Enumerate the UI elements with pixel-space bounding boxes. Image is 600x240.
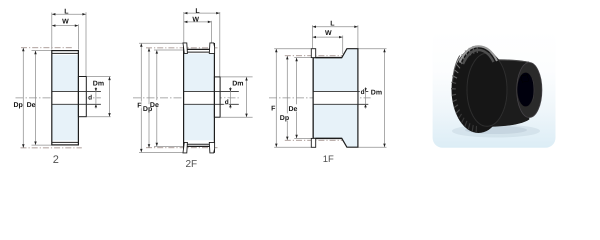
svg-text:De: De xyxy=(27,102,36,109)
product photo: flange front face xyxy=(467,53,507,126)
pulley type 2: dimension Dm line with arrows xyxy=(109,77,111,117)
pulley type 2F: body side edges xyxy=(183,43,185,153)
svg-text:L: L xyxy=(195,8,200,15)
pulley type 2: centerline (dash-dot) xyxy=(16,97,101,99)
svg-text:W: W xyxy=(62,19,69,26)
pulley type 1F: bore line top xyxy=(313,90,368,92)
pulley type 2F: teeth band bottom (white) xyxy=(187,142,209,147)
pulley type 1F: F extension lines xyxy=(274,48,311,50)
pulley type 2F: flange tab bottom-left xyxy=(183,142,187,153)
pulley type 2F: dimension d line with arrows xyxy=(229,87,231,109)
svg-text:1F: 1F xyxy=(323,154,334,165)
pulley type 2F: label d (with halo) xyxy=(224,98,229,104)
pulley type 2F: F extension lines xyxy=(139,42,183,44)
pulley type 2: tooth root line top xyxy=(52,52,79,54)
svg-text:De: De xyxy=(150,102,159,109)
pulley type 1F: dimension F line with arrows xyxy=(275,49,277,148)
svg-text:Dm: Dm xyxy=(93,81,104,88)
pulley type 2F: dimension L extension lines xyxy=(183,12,185,43)
pulley type 2F: De extension lines xyxy=(154,49,183,51)
pulley type 2: dimension W extension line xyxy=(77,24,79,49)
svg-text:2F: 2F xyxy=(185,159,197,170)
svg-text:2: 2 xyxy=(53,154,59,166)
svg-text:Dm: Dm xyxy=(232,80,243,87)
svg-text:L: L xyxy=(330,21,335,28)
pulley type 1F: label d (with halo) xyxy=(360,88,365,94)
pulley type 2F: label Dm (with halo) xyxy=(232,79,243,86)
pulley type 1F: pitch line bottom (dash-dot) xyxy=(285,139,343,141)
svg-text:Dm: Dm xyxy=(371,90,382,97)
pulley type 2F: tooth tip line bottom xyxy=(187,145,209,147)
pulley type 2: bore strip (white) xyxy=(52,91,85,104)
svg-text:L: L xyxy=(64,9,69,16)
pulley type 2F: pitch line bottom (dash-dot) xyxy=(146,147,218,149)
pulley type 2F: teeth band top (white) xyxy=(187,49,209,54)
pulley type 2F: tooth root line top xyxy=(187,51,209,53)
pulley type 2: tooth root line bottom xyxy=(52,141,79,143)
product photo: flange upper-left rim secondary highlight xyxy=(453,56,460,83)
pulley type 2: bore line top xyxy=(52,90,101,92)
pulley type 2F: dimension Dm line with arrows xyxy=(246,77,248,117)
pulley type 2: bore line bottom xyxy=(52,103,101,105)
pulley type 2: label Dm (with halo) xyxy=(92,79,103,86)
pulley type 2: label d (with halo) xyxy=(87,94,92,100)
pulley type 1F: dimension d line with arrows xyxy=(365,87,367,109)
pulley type 2: teeth band bottom (white) xyxy=(52,141,77,145)
pulley type 1F: dimension Dp line with arrows xyxy=(286,56,288,140)
pulley type 1F: dimension W extension line xyxy=(342,36,344,55)
pulley type 1F: bore strip (white) xyxy=(314,91,358,104)
pulley type 2F: label De xyxy=(150,100,160,107)
pulley type 2F: label Dp xyxy=(143,104,153,111)
product photo: bore hole xyxy=(517,73,534,107)
pulley type 1F: De extension lines xyxy=(294,57,311,59)
pulley type 1F: dimension L extension lines xyxy=(311,25,313,48)
pulley type 2F: bore line bottom xyxy=(184,103,239,105)
pulley type 2F: dimension Dp line with arrows xyxy=(148,48,150,148)
pulley type 2F: tooth tip line top xyxy=(187,48,209,50)
product photo: keyway notch xyxy=(521,75,528,82)
pulley type 2F: pitch line top (dash-dot) xyxy=(146,47,218,49)
pulley type 1F: dimension L line with arrows xyxy=(312,26,358,28)
pulley type 2: dimension d line with arrows xyxy=(95,87,97,109)
pulley type 1F: flange tab bottom xyxy=(311,138,315,147)
pulley type 2: dimension De line with arrows xyxy=(35,51,37,146)
pulley type 1F: body with hub (light blue, outlined) xyxy=(313,49,358,148)
svg-text:Dp: Dp xyxy=(280,115,289,122)
pulley type 2: body outline xyxy=(52,51,79,145)
product photo: flange top rim highlight xyxy=(460,46,498,62)
pulley type 1F: dimension W line with arrows xyxy=(312,36,342,38)
pulley type 2F: tooth root line bottom xyxy=(187,143,209,145)
pulley type 1F: tooth tip line bottom xyxy=(316,137,342,139)
pulley type 1F: pitch line top (dash-dot) xyxy=(285,55,343,57)
pulley type 2F: bore line top xyxy=(184,90,239,92)
pulley type 2: teeth band top (white) xyxy=(52,51,77,55)
svg-text:De: De xyxy=(289,106,298,113)
pulley type 2F: label F xyxy=(137,101,142,108)
pulley type 2: Dm extension lines xyxy=(87,76,111,78)
pulley type 2: dimension Dp line with arrows xyxy=(22,48,24,148)
pulley type 1F: dimension Dm line with arrows xyxy=(384,49,386,148)
product photo: flange teeth ridges xyxy=(451,46,477,133)
svg-text:Dp: Dp xyxy=(14,102,23,109)
svg-text:d: d xyxy=(361,89,365,96)
pulley type 1F: label Dp xyxy=(279,113,289,120)
product photo: flange disc silhouette with teeth ring xyxy=(452,46,506,133)
pulley type 2: dimension W line with arrows xyxy=(52,25,79,27)
pulley type 2F: toothed body (light blue) xyxy=(184,53,215,141)
pulley type 2F: flange tab top-left xyxy=(183,43,187,54)
pulley type 2: De extension lines xyxy=(32,50,52,52)
pulley type 2F: flange tab top-right xyxy=(209,43,214,54)
svg-text:F: F xyxy=(137,103,142,110)
pulley type 1F: label F xyxy=(271,104,276,111)
pulley type 1F: Dm extension lines xyxy=(359,48,387,50)
pulley type 2: dimension L line with arrows xyxy=(52,13,86,15)
product photo: hub cylinder xyxy=(490,60,529,127)
pulley type 1F: body left edge xyxy=(312,58,314,139)
pulley type 2F: flange tab bottom-right xyxy=(209,142,214,153)
pulley type 1F: dimension De line with arrows xyxy=(296,58,298,139)
pulley type 2: hub (white, outlined) xyxy=(78,77,86,117)
pulley type 2F: bore strip (white) xyxy=(184,91,220,104)
pulley type 2F: dimension F line with arrows xyxy=(140,43,142,152)
product photo: flange face rim shading xyxy=(467,53,507,126)
pulley type 2: pitch line top (dash-dot) xyxy=(21,47,73,49)
svg-text:W: W xyxy=(192,16,199,23)
pulley type 1F: flange tab top xyxy=(311,49,315,58)
pulley type 1F: label Dm (with halo) xyxy=(370,88,381,95)
svg-text:d: d xyxy=(225,99,229,106)
pulley type 2F: dimension W line with arrows xyxy=(184,21,212,23)
product photo: hub top edge highlight xyxy=(498,60,529,63)
product photo: bore inner highlight xyxy=(532,78,534,103)
pulley type 2: pitch line bottom (dash-dot) xyxy=(21,147,82,149)
pulley type 2: toothed body (light blue) xyxy=(52,51,79,145)
pulley type 2F: centerline (dash-dot) xyxy=(133,97,239,99)
pulley type 2F: dimension De line with arrows xyxy=(156,50,158,146)
pulley type 2F: hub (white, outlined) xyxy=(214,77,220,117)
svg-text:d: d xyxy=(88,94,92,101)
product photo: flange top inner glow xyxy=(463,50,494,64)
pulley type 2F: dimension W extension line xyxy=(210,21,212,43)
pulley type 2F: dimension L line with arrows xyxy=(184,12,220,14)
pulley type 2F: Dm extension lines xyxy=(221,76,253,78)
pulley type 1F: bore line bottom xyxy=(313,103,368,105)
pulley type 1F: tooth tip line top xyxy=(316,57,342,59)
product photo: shadow under pulley xyxy=(452,125,540,138)
pulley type 2: dimension L extension lines xyxy=(51,13,53,50)
pulley type 1F: label De xyxy=(288,104,298,111)
svg-text:F: F xyxy=(271,106,276,113)
svg-text:W: W xyxy=(325,30,332,37)
pulley type 1F: centerline (dash-dot) xyxy=(269,97,371,99)
product photo: hub right face xyxy=(517,63,542,118)
